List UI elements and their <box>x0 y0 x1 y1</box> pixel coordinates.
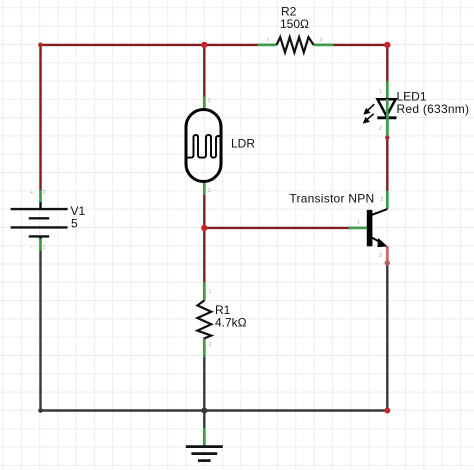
pin transistor base (green) <box>349 226 367 229</box>
wire R1 to bottom rail <box>203 356 205 411</box>
wire bottom rail <box>41 409 388 411</box>
wire top rail right of R2 <box>333 44 388 46</box>
svg-text:2: 2 <box>379 253 382 259</box>
node ground junction <box>201 408 207 414</box>
battery V1 <box>11 202 68 239</box>
pin R2 right (green) <box>314 44 334 47</box>
svg-text:Transistor NPN: Transistor NPN <box>289 192 374 206</box>
svg-text:LDR: LDR <box>231 137 255 151</box>
svg-text:2: 2 <box>320 38 323 44</box>
pin transistor emitter (salmon) <box>386 246 389 265</box>
wire top rail left of R2 <box>41 44 259 46</box>
node emitter wire end <box>385 260 390 265</box>
svg-text:4.7kΩ: 4.7kΩ <box>215 316 247 330</box>
node bottom-left corner <box>38 408 43 413</box>
svg-text:150Ω: 150Ω <box>280 17 309 31</box>
pin battery - (green) <box>39 238 42 252</box>
svg-text:1: 1 <box>267 38 270 44</box>
node top mid junction <box>201 42 207 48</box>
svg-text:2: 2 <box>208 188 211 194</box>
transistor Q1 NPN <box>367 210 373 246</box>
svg-text:2: 2 <box>43 190 46 196</box>
pin LED anode (green) <box>386 81 389 99</box>
pin LDR bottom (green) <box>203 182 206 195</box>
wire LED to collector <box>386 136 388 192</box>
svg-text:2: 2 <box>379 126 382 132</box>
wire middle column upper (to LDR) <box>203 45 205 97</box>
node bottom-right corner <box>384 408 390 414</box>
node top-right corner <box>384 42 390 48</box>
node LED cathode wire end (red) <box>385 135 390 140</box>
svg-text:5: 5 <box>71 217 78 231</box>
pin R2 left (green) <box>258 44 277 47</box>
svg-text:1: 1 <box>379 89 382 95</box>
svg-text:Red (633nm): Red (633nm) <box>397 102 470 116</box>
node base junction <box>201 225 207 231</box>
wire through LED (green overlay) <box>386 99 389 136</box>
pin battery + (green) <box>39 190 42 202</box>
wire ground stub <box>203 411 205 430</box>
LED1 <box>377 99 396 118</box>
pin transistor collector (green) <box>386 191 389 209</box>
pin LED cathode (green) <box>386 118 389 136</box>
LDR <box>186 110 221 182</box>
svg-text:1: 1 <box>43 245 46 251</box>
wire left column (battery +) <box>39 45 41 191</box>
node top-left corner <box>38 43 43 48</box>
pin R1 bottom (green) <box>203 337 206 357</box>
LED light arrows <box>363 104 375 123</box>
wire LDR to base junction <box>203 193 205 283</box>
resistor R2 <box>277 37 314 52</box>
wire emitter to bottom rail <box>386 266 388 411</box>
svg-text:1: 1 <box>357 220 360 226</box>
svg-text:2: 2 <box>209 342 212 348</box>
pin LDR top (green) <box>203 97 206 110</box>
svg-text:1: 1 <box>208 98 211 104</box>
wire right column (rail to LED) <box>386 45 388 82</box>
svg-text:1: 1 <box>209 289 212 295</box>
resistor R1 <box>197 301 211 339</box>
svg-text:-: - <box>31 245 33 251</box>
ground <box>186 447 223 461</box>
pin R1 top (green) <box>203 282 206 300</box>
svg-text:+: + <box>30 190 33 196</box>
pin ground (green) <box>203 428 206 446</box>
wire battery - to bottom rail <box>39 250 41 411</box>
wire base horizontal <box>204 227 349 229</box>
svg-text:3: 3 <box>380 197 383 203</box>
